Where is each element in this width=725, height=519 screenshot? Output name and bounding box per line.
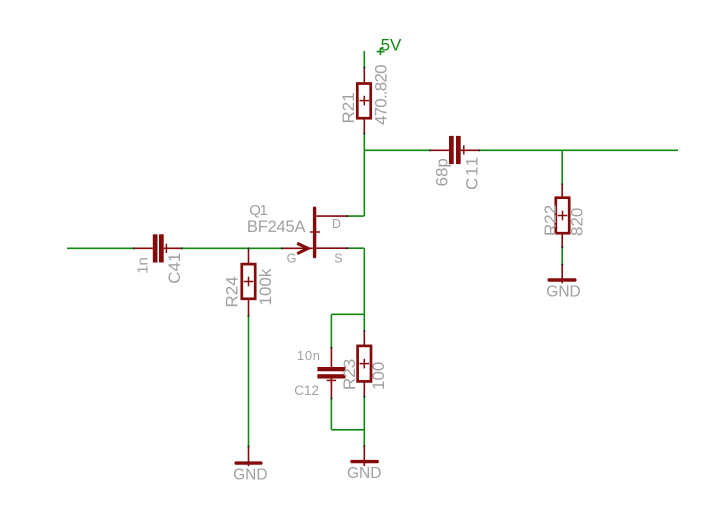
svg-text:D: D	[332, 217, 341, 231]
svg-text:C12: C12	[294, 383, 319, 398]
svg-text:G: G	[287, 251, 297, 265]
svg-text:BF245A: BF245A	[247, 218, 306, 236]
svg-text:GND: GND	[233, 466, 267, 483]
svg-text:C11: C11	[462, 155, 481, 190]
svg-text:Q1: Q1	[249, 202, 267, 219]
svg-text:1n: 1n	[135, 257, 152, 274]
svg-text:S: S	[334, 252, 342, 266]
svg-text:470..820: 470..820	[371, 65, 390, 125]
svg-text:R23: R23	[340, 359, 359, 390]
svg-text:100k: 100k	[256, 268, 275, 305]
svg-text:GND: GND	[347, 465, 381, 482]
svg-text:C41: C41	[165, 253, 184, 284]
svg-text:R21: R21	[339, 92, 358, 123]
svg-text:100: 100	[369, 362, 388, 390]
svg-text:5V: 5V	[381, 36, 402, 55]
svg-text:R22: R22	[541, 205, 560, 236]
svg-text:GND: GND	[546, 284, 580, 301]
svg-text:R24: R24	[223, 276, 242, 307]
svg-text:820: 820	[568, 208, 587, 236]
svg-text:10n: 10n	[297, 348, 321, 363]
svg-text:68p: 68p	[432, 158, 451, 186]
